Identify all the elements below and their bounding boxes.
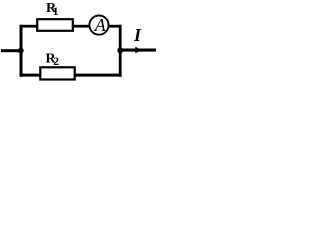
wire: top branch, R1 to ammeter [73,25,90,28]
wire: bottom branch, R2 to right corner [74,74,122,77]
svg-text:I: I [133,25,142,45]
wire: output lead [120,49,156,52]
wire: left vertical bus [20,25,23,77]
wire: left input stub [1,49,22,52]
node: left junction dot [18,48,24,54]
wire: bottom branch, left segment to R2 [20,74,41,77]
node: output junction dot [117,48,123,54]
wire: right vertical bus [119,25,122,77]
ammeter A1 [89,16,108,35]
wire: top branch, ammeter to right corner [109,25,122,28]
resistor R2 [40,67,74,79]
arrowhead on output lead [135,47,142,54]
wire: top branch, left segment to R1 [20,25,38,28]
background [0,0,162,87]
svg-text:2: 2 [53,56,59,68]
resistor R1 [37,19,73,31]
svg-text:1: 1 [53,6,59,18]
svg-text:A: A [94,15,107,35]
